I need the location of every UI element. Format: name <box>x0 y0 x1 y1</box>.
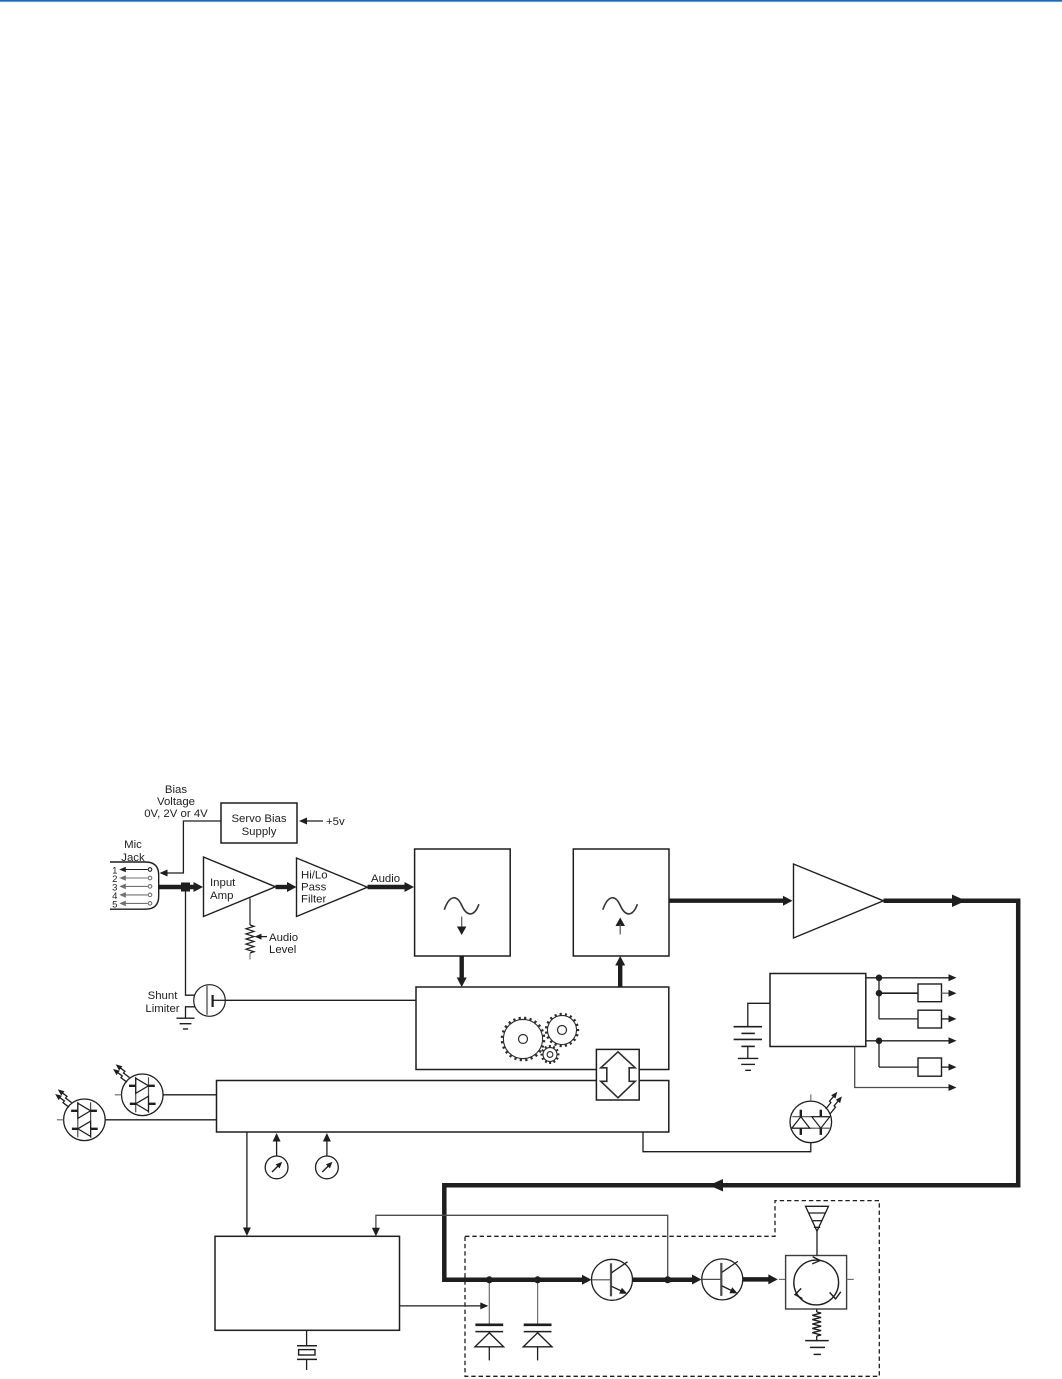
power rail 6 <box>855 1047 950 1088</box>
wire demodulator to power amp (thick) <box>669 899 784 903</box>
interface connector (double arrow) <box>596 1049 639 1100</box>
sine symbol (down) <box>444 898 479 914</box>
svg-text:Audio: Audio <box>371 873 400 885</box>
jack pin 2 <box>148 876 152 880</box>
jack pin 1 <box>148 868 152 872</box>
svg-text:0V, 2V or 4V: 0V, 2V or 4V <box>144 808 208 820</box>
gear large <box>501 1017 544 1060</box>
svg-text:Servo Bias: Servo Bias <box>231 813 286 825</box>
transistor Q3 buffer <box>702 1259 743 1300</box>
feedback wire oscillator to synthesizer <box>376 1215 668 1278</box>
varactor D4 <box>488 1282 490 1324</box>
wire controller to synthesizer <box>246 1132 248 1229</box>
svg-text:Amp: Amp <box>210 890 233 902</box>
battery B1 <box>748 1003 770 1026</box>
node oscillator output junction <box>664 1276 671 1283</box>
amplifier U4 (PA) <box>794 864 884 938</box>
wire DSP to demodulator (thick up) <box>618 964 622 987</box>
svg-text:+5v: +5v <box>326 816 345 828</box>
transistor Q1 shunt limiter (FET) <box>145 990 179 1015</box>
transistor Q2 oscillator <box>592 1259 633 1300</box>
wire mic jack to input amp (thick) <box>159 885 196 889</box>
block power controller <box>770 974 866 1047</box>
power rail 5 + regulator <box>879 1066 918 1068</box>
wire shunt limiter to DSP <box>225 999 416 1001</box>
gear medium <box>546 1013 579 1046</box>
wire D1 to controller <box>105 1119 216 1121</box>
dashed RF module boundary <box>465 1201 879 1377</box>
circulator U5 <box>786 1256 847 1310</box>
opto transceiver D1 (IR link A) <box>64 1099 106 1141</box>
wire input amp to filter (thick) <box>276 885 291 889</box>
svg-text:Voltage: Voltage <box>157 796 195 808</box>
block DSP (gears) <box>416 987 669 1070</box>
block modulator (TX audio processing) <box>415 849 511 956</box>
svg-text:Pass: Pass <box>301 882 327 894</box>
svg-text:Level: Level <box>269 944 296 956</box>
power rail 1 <box>866 977 950 979</box>
svg-text:Shunt: Shunt <box>148 990 179 1002</box>
block controller (long) <box>217 1081 669 1133</box>
crystal Y1 <box>306 1330 308 1345</box>
power rail 4 <box>866 1040 950 1042</box>
potentiometer Audio Level <box>249 898 251 925</box>
svg-text:Input: Input <box>210 877 236 889</box>
+5v supply input <box>302 820 323 822</box>
svg-text:5: 5 <box>112 899 117 910</box>
wire Q2 to Q3 (thick) <box>633 1278 695 1283</box>
antenna <box>806 1206 829 1255</box>
power rail 3 + regulator <box>879 1018 918 1020</box>
node varactor junction 1 <box>486 1276 493 1283</box>
wire controller to D3 <box>643 1132 811 1152</box>
svg-text:Hi/Lo: Hi/Lo <box>301 870 328 882</box>
wire junction down to shunt limiter <box>186 889 208 995</box>
wire audio to modulator (thick) <box>368 885 408 889</box>
junction node <box>181 883 190 892</box>
thick RF output feedback line <box>444 901 1018 1280</box>
ground (shunt limiter) <box>177 1018 195 1029</box>
svg-text:Mic: Mic <box>124 839 142 851</box>
jack pin 5 <box>148 902 152 906</box>
svg-text:Audio: Audio <box>269 932 298 944</box>
opto transceiver D2 (IR link B) <box>122 1074 164 1116</box>
wire bias voltage to mic jack <box>162 821 221 873</box>
sine symbol (up) <box>603 898 638 914</box>
op-amp U2 Input Amp <box>204 857 276 917</box>
wire D2 to controller <box>163 1094 216 1096</box>
block demodulator (RX audio processing) <box>573 849 669 956</box>
meter M2 <box>326 1140 328 1156</box>
svg-text:Bias: Bias <box>165 784 187 796</box>
meter M1 <box>276 1140 278 1156</box>
connector J1 Mic Jack <box>121 839 145 864</box>
svg-text:Supply: Supply <box>242 826 277 838</box>
power rail 2 + regulator <box>876 990 883 997</box>
svg-text:Filter: Filter <box>301 894 327 906</box>
opto transceiver D3 (IR link C) <box>790 1101 832 1143</box>
node varactor junction 2 <box>534 1276 541 1283</box>
wire Q3 to circulator (thick) <box>743 1277 771 1282</box>
gear small <box>541 1046 559 1064</box>
ground (battery) <box>738 1058 758 1070</box>
jack pin 4 <box>148 893 152 897</box>
resistor R1 (circulator load) <box>816 1309 818 1312</box>
jack pin 3 <box>148 885 152 889</box>
block U1 Servo Bias Supply <box>221 803 297 843</box>
ground (circulator load) <box>805 1341 829 1355</box>
varactor D5 <box>537 1282 539 1324</box>
label Bias Voltage <box>144 784 208 820</box>
block synthesizer <box>215 1236 400 1330</box>
wire synthesizer to varactor <box>400 1305 483 1307</box>
wire modulator to DSP (thick down) <box>460 956 464 979</box>
filter U3 Hi/Lo Pass Filter <box>297 858 368 917</box>
svg-text:Limiter: Limiter <box>145 1003 179 1015</box>
